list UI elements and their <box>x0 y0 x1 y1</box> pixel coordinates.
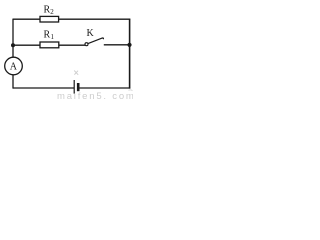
left vertical wire upper <box>12 19 14 58</box>
ammeter A1 circle <box>5 57 23 75</box>
wire R2 to top-right corner <box>59 18 131 20</box>
bottom wire left to battery <box>13 87 74 89</box>
left vertical wire lower <box>12 75 14 89</box>
svg-text:maifen5. com: maifen5. com <box>57 91 133 100</box>
svg-text:A: A <box>10 62 18 73</box>
svg-text:1: 1 <box>51 33 55 41</box>
resistor R2 <box>40 16 59 22</box>
switch K contact circle <box>85 43 88 46</box>
switch K blade <box>88 38 103 44</box>
svg-text:R: R <box>44 29 51 40</box>
battery negative plate (short thick) <box>77 83 80 91</box>
wire junction to R1 <box>13 44 40 46</box>
svg-text:2: 2 <box>50 8 54 16</box>
battery positive plate (long thin) <box>73 80 75 94</box>
bottom wire battery to right <box>80 87 131 89</box>
right vertical wire <box>129 19 131 89</box>
watermark squiggle top-right of text <box>129 89 133 92</box>
watermark mark above battery <box>74 71 78 75</box>
svg-text:K: K <box>87 28 95 39</box>
node junction right <box>127 43 131 47</box>
wire switch to right junction <box>104 44 130 46</box>
wire R1 to switch <box>59 44 85 46</box>
node junction left <box>11 43 15 47</box>
resistor R1 <box>40 42 59 48</box>
wire top-left to R2 <box>13 18 40 20</box>
